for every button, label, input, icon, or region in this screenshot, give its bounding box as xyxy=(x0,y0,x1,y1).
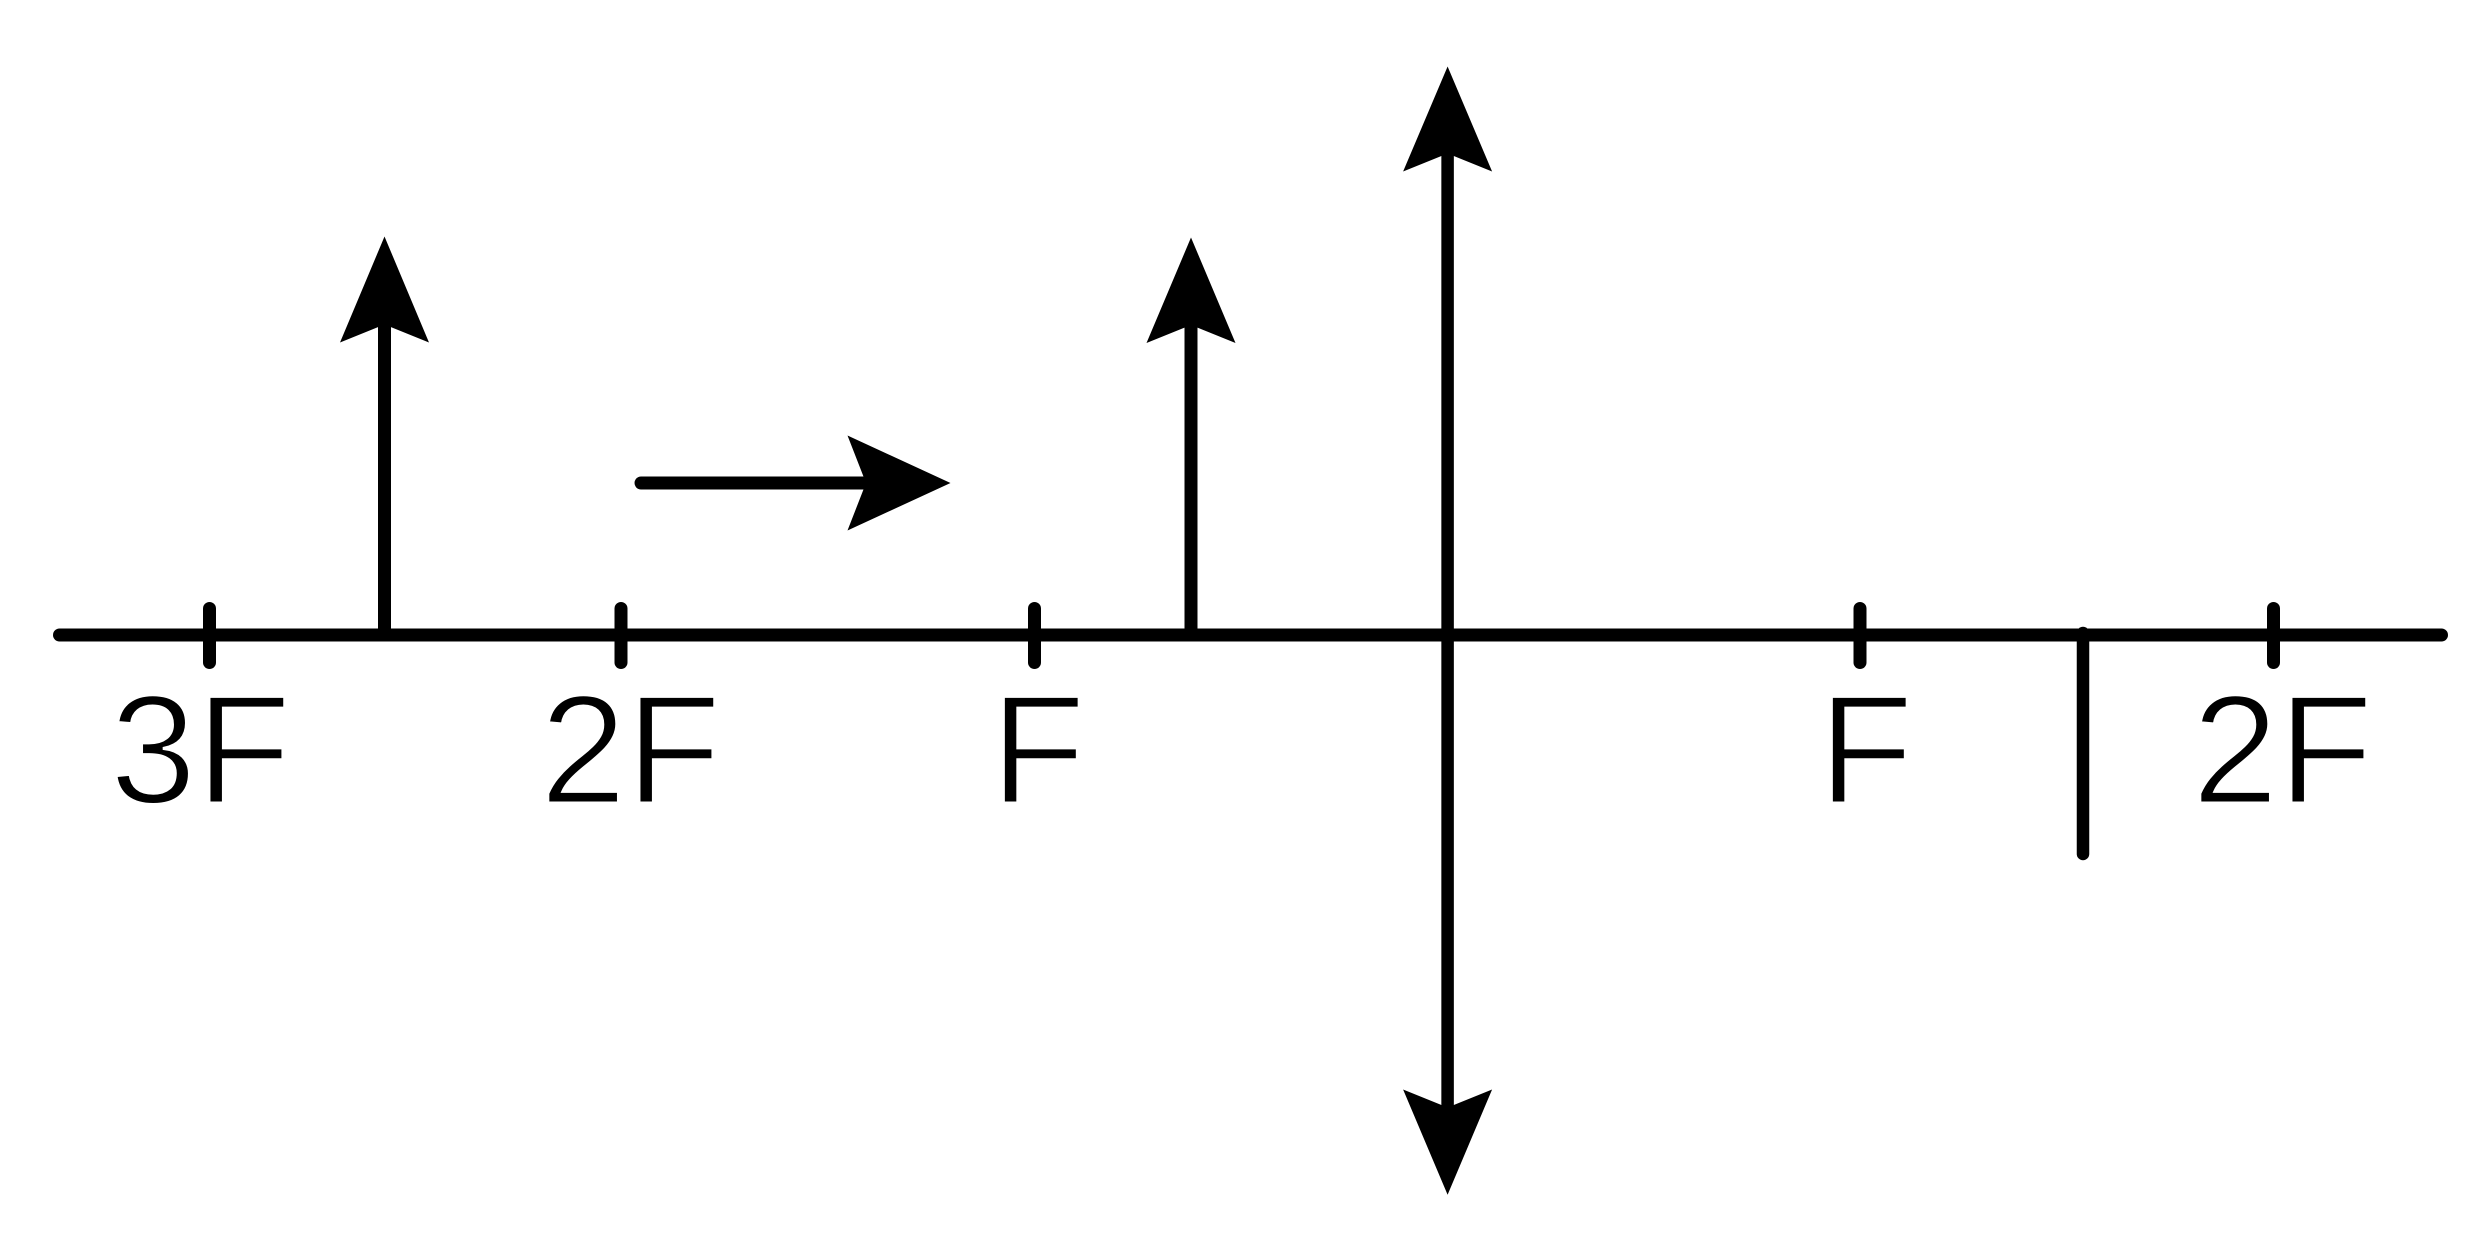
lens bottom head xyxy=(1403,1090,1492,1195)
object arrow 2 head xyxy=(1147,238,1236,344)
svg-text:F: F xyxy=(991,663,1086,836)
object arrow 2 shaft xyxy=(1185,310,1198,641)
tick 2F left xyxy=(615,609,628,663)
svg-text:3F: 3F xyxy=(110,663,291,836)
svg-text:2F: 2F xyxy=(2192,663,2373,836)
svg-text:F: F xyxy=(1819,663,1914,836)
lens shaft xyxy=(1441,150,1454,1110)
optical axis xyxy=(60,629,2442,642)
tick 2F right xyxy=(2267,609,2280,663)
tick F left xyxy=(1028,609,1041,663)
object arrow 1 shaft xyxy=(378,310,391,641)
lens top head xyxy=(1403,67,1492,172)
tick 3F xyxy=(203,609,216,663)
motion arrow head xyxy=(848,436,951,531)
motion arrow shaft xyxy=(641,477,880,490)
image line xyxy=(2077,633,2090,854)
tick F right xyxy=(1854,609,1867,663)
object arrow 1 head xyxy=(340,237,429,343)
svg-text:2F: 2F xyxy=(540,663,721,836)
